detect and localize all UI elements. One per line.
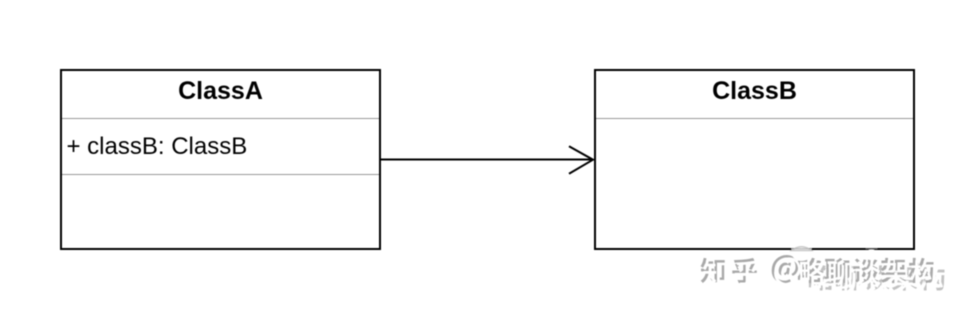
faint remnant line over notch 1 [791,248,812,249]
faint remnant line over notch 2 [866,248,878,249]
watermark ghost stamp gray layer [809,265,945,290]
association arrow shaft ClassA to ClassB [381,159,593,161]
separator line 1 (ClassA) [62,118,379,120]
open arrowhead [569,146,593,173]
watermark main stamp gray layer 知乎 @略聊谈架构 [701,255,934,283]
class box ClassA [60,69,381,250]
ghost stamp dome arc poking above border [792,247,812,251]
watermark main stamp white emboss layer [703,257,936,285]
class box ClassB [594,69,915,250]
title ClassA [62,79,379,104]
attribute + classB: ClassB [67,135,248,159]
watermark ghost stamp white layer [812,268,948,293]
white notch blob 1 on ClassB bottom border [792,247,811,261]
separator line 2 (ClassA) [62,174,379,176]
white notch blob 2 on ClassB bottom border [865,249,878,260]
title ClassB [596,79,913,104]
separator line 1 (ClassB) [596,118,913,120]
